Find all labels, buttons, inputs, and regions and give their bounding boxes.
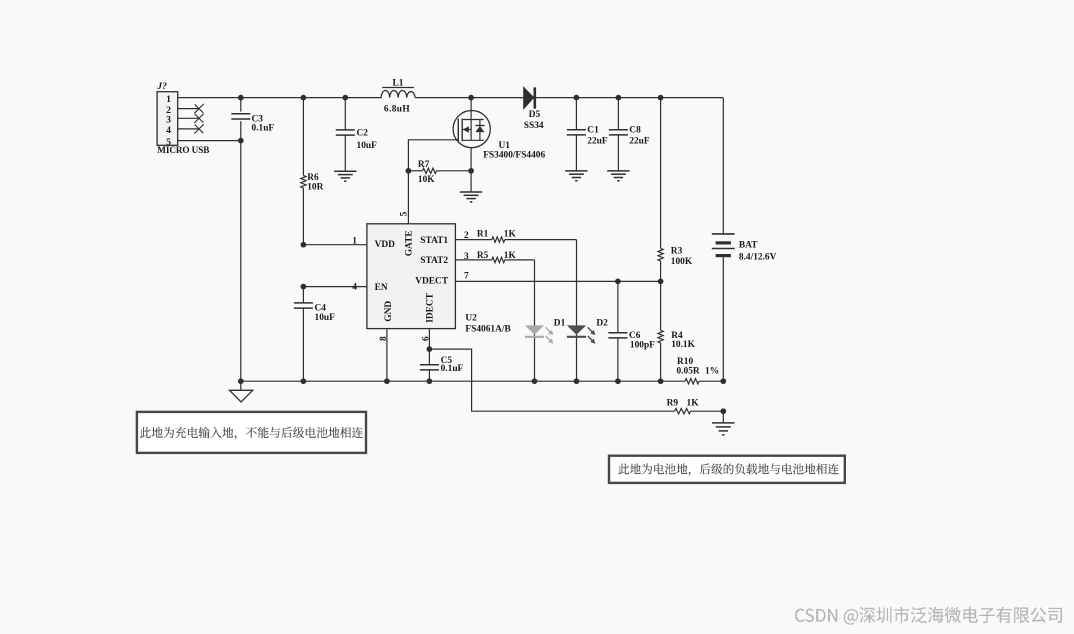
transistor U1 body — [453, 111, 490, 148]
U1 body diode — [479, 120, 481, 126]
svg-text:1: 1 — [352, 237, 357, 247]
svg-text:10K: 10K — [418, 175, 435, 185]
diode D5 — [524, 87, 534, 108]
resistor R5 — [455, 259, 491, 261]
node source/R7 — [468, 168, 474, 174]
svg-text:STAT1: STAT1 — [420, 236, 448, 246]
svg-text:SS34: SS34 — [524, 121, 544, 131]
svg-text:4: 4 — [166, 125, 171, 136]
svg-text:D5: D5 — [529, 110, 541, 120]
svg-text:0.1uF: 0.1uF — [252, 124, 275, 134]
svg-text:IDECT: IDECT — [425, 292, 435, 322]
U1 gate bar — [457, 119, 459, 142]
annotation text input-ground — [140, 427, 363, 439]
node gnd D1 — [532, 378, 538, 384]
ground U1 source — [460, 191, 482, 193]
node gnd D2 — [574, 378, 580, 384]
svg-text:U1: U1 — [499, 141, 511, 151]
led D1 — [525, 325, 544, 334]
wire D2 drop — [576, 240, 578, 382]
wire top rail L1 to D5 — [415, 97, 524, 99]
svg-text:GND: GND — [384, 301, 394, 322]
svg-text:R10: R10 — [677, 357, 693, 367]
wire top rail D5 to BAT corner — [536, 97, 724, 99]
svg-text:10.1K: 10.1K — [671, 340, 695, 350]
svg-text:100pF: 100pF — [630, 340, 655, 350]
svg-text:1K: 1K — [504, 230, 517, 240]
svg-text:0.05R: 0.05R — [677, 366, 700, 376]
svg-text:STAT2: STAT2 — [420, 256, 448, 266]
svg-text:0.1uF: 0.1uF — [441, 364, 464, 374]
svg-text:10R: 10R — [307, 182, 323, 192]
svg-text:10uF: 10uF — [357, 141, 378, 151]
svg-text:U2: U2 — [465, 314, 477, 324]
svg-text:C1: C1 — [587, 125, 599, 135]
node at R3 — [658, 95, 664, 101]
U1 drain stub — [462, 119, 484, 121]
svg-text:R5: R5 — [477, 251, 489, 261]
svg-text:FS4061A/B: FS4061A/B — [465, 325, 510, 335]
svg-text:VDD: VDD — [375, 240, 396, 250]
wire drain to rail — [470, 98, 472, 120]
svg-text:C4: C4 — [315, 303, 327, 313]
svg-text:5: 5 — [400, 211, 410, 216]
svg-text:BAT: BAT — [739, 241, 758, 251]
annotation text battery-ground — [618, 463, 838, 475]
wire nc stub — [178, 108, 199, 110]
svg-text:MICRO USB: MICRO USB — [157, 145, 209, 155]
ic U2 box — [367, 224, 456, 329]
battery BAT — [712, 233, 735, 235]
wire USB pin5 to C3 node — [178, 140, 241, 142]
svg-text:C8: C8 — [629, 125, 641, 135]
node gnd C5 — [427, 378, 433, 384]
node at U1 drain — [468, 95, 474, 101]
U1 body arrow — [462, 129, 471, 131]
led D2 — [567, 325, 586, 334]
wire bottom rail — [241, 380, 685, 382]
svg-text:R9: R9 — [667, 399, 679, 409]
node VDD tap — [301, 242, 307, 248]
svg-text:J?: J? — [156, 81, 167, 92]
svg-text:VDECT: VDECT — [415, 276, 449, 286]
node gnd R4 — [658, 378, 664, 384]
svg-text:6.8uH: 6.8uH — [384, 105, 411, 115]
inductor L1 — [381, 91, 415, 98]
resistor R1 — [455, 239, 491, 241]
svg-text:1: 1 — [166, 94, 171, 105]
capacitor C8 — [617, 98, 619, 130]
wire IDECT to R9 — [429, 349, 674, 411]
wire rail to BAT — [722, 98, 724, 234]
resistor R4 — [660, 281, 662, 330]
node VDECT/R3R4 — [658, 279, 664, 285]
node VBUS at C3 — [238, 95, 244, 101]
resistor R3 — [660, 98, 662, 249]
U1 channel bar — [461, 119, 463, 142]
wire gate run — [408, 140, 458, 224]
watermark CSDN — [795, 607, 1062, 624]
node at C1 — [574, 95, 580, 101]
svg-text:4: 4 — [352, 283, 357, 293]
node gate/R7 — [406, 168, 412, 174]
wire top rail C3 to L1 — [241, 97, 381, 99]
resistor R6 — [302, 98, 304, 176]
svg-text:R7: R7 — [418, 160, 430, 170]
callout box battery-ground — [609, 456, 845, 483]
capacitor C2 — [344, 98, 346, 131]
node gnd C6 — [615, 378, 621, 384]
wire C3 node to bottom rail — [240, 141, 242, 382]
wire D1 drop — [534, 260, 536, 381]
wire source down — [470, 148, 472, 192]
svg-text:22uF: 22uF — [629, 137, 650, 147]
node EN tap — [301, 284, 307, 290]
svg-text:R1: R1 — [477, 230, 489, 240]
svg-text:C2: C2 — [357, 129, 369, 139]
wire nc stub — [178, 128, 199, 130]
ground C8 — [607, 170, 629, 172]
capacitor C4 — [302, 287, 304, 303]
callout box input-ground — [137, 412, 366, 453]
svg-text:8: 8 — [379, 336, 389, 341]
resistor R10 — [685, 379, 699, 384]
ground C2 — [334, 170, 356, 172]
wire EN stub — [303, 286, 366, 288]
ground input arrow — [240, 381, 242, 390]
U1 internal vertical — [470, 120, 472, 141]
svg-text:10uF: 10uF — [315, 313, 336, 323]
capacitor C1 — [575, 98, 577, 130]
node gnd R6col — [301, 378, 307, 384]
ground C1 — [565, 170, 587, 172]
node BAT minus — [720, 378, 726, 384]
resistor R9 — [675, 409, 691, 414]
node pin5/C3 — [238, 138, 244, 144]
wire BAT gnd drop — [722, 411, 724, 423]
node at C2 — [342, 95, 348, 101]
node IDECT/C5 — [427, 346, 433, 352]
svg-text:L1: L1 — [393, 78, 404, 88]
svg-text:EN: EN — [375, 283, 388, 293]
svg-text:22uF: 22uF — [587, 137, 608, 147]
wire VDECT run — [455, 280, 660, 282]
capacitor C6 — [617, 281, 619, 333]
svg-text:1K: 1K — [687, 399, 700, 409]
node at R6 — [301, 95, 307, 101]
wire IDECT pin — [428, 329, 430, 350]
node gnd U2GND — [384, 378, 390, 384]
svg-text:D2: D2 — [596, 319, 608, 329]
resistor R7 — [423, 168, 437, 173]
wire GND pin — [386, 329, 388, 382]
capacitor C5 — [428, 349, 430, 365]
svg-text:FS3400/FS4406: FS3400/FS4406 — [483, 151, 545, 161]
svg-text:1K: 1K — [504, 251, 517, 261]
wire USB pin1 to rail — [178, 97, 241, 99]
svg-text:D1: D1 — [554, 319, 566, 329]
svg-text:R3: R3 — [671, 247, 683, 257]
wire nc stub — [178, 117, 199, 119]
svg-text:3: 3 — [166, 115, 171, 126]
svg-text:6: 6 — [422, 336, 432, 341]
svg-text:7: 7 — [464, 272, 469, 282]
no-connect X — [194, 114, 203, 123]
no-connect X — [194, 104, 203, 113]
node R9/BAT — [720, 408, 726, 414]
node gnd C3 — [238, 378, 244, 384]
node VDECT/C6 — [615, 279, 621, 285]
svg-text:100K: 100K — [671, 257, 693, 267]
capacitor C3 — [240, 98, 242, 112]
svg-text:8.4/12.6V: 8.4/12.6V — [739, 253, 777, 263]
no-connect X — [194, 124, 203, 133]
svg-text:GATE: GATE — [405, 230, 415, 256]
U1 source stub — [462, 139, 484, 141]
svg-text:1%: 1% — [705, 366, 719, 376]
connector J? MICRO USB box — [157, 92, 178, 146]
ground battery — [712, 422, 734, 424]
node at C8 — [616, 95, 622, 101]
wire VDD stub — [303, 244, 366, 246]
